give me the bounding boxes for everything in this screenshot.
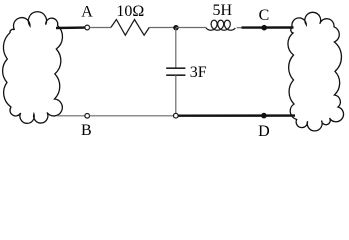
wire: inductor exit lead (thin) <box>237 27 242 29</box>
svg-text:10Ω: 10Ω <box>116 3 144 20</box>
node A (open terminal) <box>85 25 90 30</box>
wire: to right cloud through node C (thick) <box>242 26 294 29</box>
capacitor top lead (thin vertical) <box>175 28 177 68</box>
node C (junction dot) <box>261 25 267 31</box>
wire: resistor to junction (thin) <box>149 27 176 29</box>
inductor L (5H) coil <box>206 20 235 30</box>
capacitor plates (3F) <box>166 67 185 69</box>
node B (open terminal) <box>85 113 90 118</box>
junction dot (top of capacitor) <box>173 25 179 31</box>
wire: bottom junction to right cloud through node D (thick) <box>178 114 295 116</box>
resistor R (10 ohm) zigzag <box>111 20 149 36</box>
node D (junction dot) <box>261 113 267 119</box>
svg-text:D: D <box>258 123 270 140</box>
svg-text:5H: 5H <box>213 2 233 19</box>
bottom junction (open terminal at capacitor) <box>173 113 178 118</box>
svg-text:A: A <box>81 4 93 21</box>
capacitor bottom lead (thin vertical) <box>175 75 177 113</box>
wire: junction to inductor (thin) <box>176 27 207 29</box>
svg-text:C: C <box>259 7 270 24</box>
wire: node B to bottom junction (thin) <box>89 115 173 117</box>
wire: left cloud to node B (thin) <box>57 115 85 117</box>
svg-text:3F: 3F <box>190 64 207 81</box>
wire: left cloud to node A (thick) <box>56 26 85 29</box>
wire: node A to resistor (thin) <box>89 27 111 29</box>
right network cloud <box>288 12 344 131</box>
left network cloud <box>3 12 63 124</box>
svg-text:B: B <box>81 122 92 139</box>
